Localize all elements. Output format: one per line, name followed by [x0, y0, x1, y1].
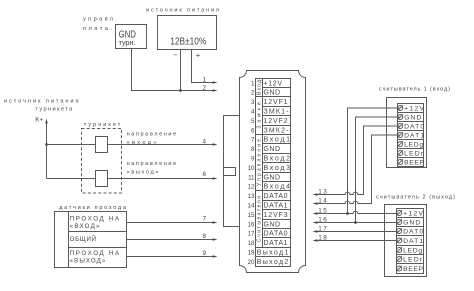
- wire 16: pin 16 GND to readers GND: [317, 222, 398, 224]
- svg-text:18: 18: [248, 240, 255, 247]
- svg-text:13: 13: [248, 193, 255, 200]
- svg-text:BEEP: BEEP: [403, 266, 423, 273]
- pin 11 cell (GND): [263, 173, 291, 182]
- svg-text:DAT1: DAT1: [403, 238, 423, 245]
- svg-text:12: 12: [248, 183, 255, 190]
- turnstile dashed outline: [82, 129, 122, 194]
- connector group cell: Управление (pins 7-12): [256, 135, 263, 191]
- svg-text:12VF3: 12VF3: [264, 212, 288, 219]
- svg-text:Считыватели: Считыватели: [257, 196, 263, 242]
- svg-text:ЗМК2-: ЗМК2-: [264, 128, 290, 135]
- svg-text:ПРОХОД НА: ПРОХОД НА: [70, 215, 120, 222]
- svg-text:14: 14: [248, 202, 255, 209]
- contact S1 direction entry: [96, 137, 108, 153]
- reader 1 terminal GND: [398, 113, 424, 122]
- connector group cell: Считыватели (pins 13-18): [256, 191, 263, 248]
- svg-text:7: 7: [251, 136, 255, 143]
- wire 17: pin 17 to reader2 DAT0: [317, 231, 398, 233]
- connector plug shroud: [224, 116, 240, 227]
- control board GND box: [116, 25, 147, 49]
- reader 2 box: [385, 205, 427, 277]
- pin 7 cell (Вход1): [263, 135, 291, 144]
- junction dot minus/GND: [179, 89, 182, 92]
- svg-text:18: 18: [318, 234, 328, 241]
- svg-text:LEDg: LEDg: [404, 142, 423, 149]
- svg-text:15: 15: [248, 212, 255, 219]
- reader 2 terminal LEDg: [397, 246, 424, 255]
- svg-text:турникет: турникет: [84, 122, 121, 128]
- svg-text:DAT1: DAT1: [404, 133, 424, 140]
- svg-text:GND: GND: [403, 220, 420, 227]
- svg-text:LEDg: LEDg: [403, 248, 422, 255]
- connector group cell: Вход (pins 1-2): [256, 79, 263, 97]
- svg-text:17: 17: [318, 225, 328, 232]
- pin 20 cell (Выход2): [256, 257, 291, 267]
- svg-text:турникета: турникета: [35, 106, 73, 112]
- svg-text:8: 8: [251, 146, 255, 153]
- svg-text:Вход4: Вход4: [264, 184, 291, 191]
- reader 1 terminal +12V: [398, 104, 424, 113]
- reader 2 terminal LEDr: [397, 255, 424, 264]
- svg-text:DATA0: DATA0: [264, 231, 288, 238]
- pin 14 cell (DATA1): [263, 201, 291, 210]
- svg-text:Вход2: Вход2: [264, 156, 291, 163]
- svg-text:BEEP: BEEP: [404, 160, 424, 167]
- pin 5 cell (12VF2): [263, 116, 291, 126]
- svg-text:LEDr: LEDr: [403, 257, 423, 264]
- svg-text:6: 6: [203, 171, 208, 178]
- svg-text:ОБЩИЙ: ОБЩИЙ: [70, 235, 97, 243]
- svg-text:10: 10: [248, 165, 255, 172]
- connector key: [224, 168, 236, 176]
- svg-text:11: 11: [248, 174, 255, 181]
- svg-text:19: 19: [248, 249, 255, 256]
- svg-text:16: 16: [248, 221, 255, 228]
- svg-text:3: 3: [251, 99, 255, 106]
- wire 8: common to pin 8: [127, 239, 214, 241]
- svg-text:GND: GND: [264, 175, 281, 182]
- pin 3 cell (12VF1): [263, 97, 291, 107]
- pin 6 cell (ЗМК2-): [263, 126, 291, 135]
- svg-text:GND: GND: [264, 146, 281, 153]
- wire 18: pin 18 to reader2 DAT1: [317, 240, 398, 242]
- svg-text:DATA1: DATA1: [264, 240, 288, 247]
- svg-text:GND: GND: [404, 115, 421, 122]
- svg-text:DAT0: DAT0: [404, 124, 424, 131]
- svg-text:9: 9: [203, 250, 208, 257]
- svg-text:DAT0: DAT0: [403, 229, 423, 236]
- wire 14: pin 14 to reader1 DAT1: [317, 135, 399, 204]
- pin 2 cell (GND): [263, 88, 291, 97]
- svg-text:турн.: турн.: [119, 38, 136, 47]
- svg-text:2: 2: [251, 89, 255, 96]
- pin 8 cell (GND): [263, 144, 291, 154]
- svg-text:−: −: [173, 51, 178, 60]
- svg-text:считыватель 2 (выход): считыватель 2 (выход): [376, 194, 455, 200]
- svg-text:Вход3: Вход3: [264, 165, 291, 172]
- svg-text:+12V: +12V: [404, 106, 424, 113]
- svg-text:считыватель 1 (вход): считыватель 1 (вход): [379, 87, 450, 93]
- svg-text:12VF1: 12VF1: [264, 99, 288, 106]
- reader 1 box: [387, 98, 427, 168]
- wire 4: entry direction to pin 4: [47, 144, 214, 146]
- reader 1 terminal BEEP: [398, 158, 424, 167]
- pin 15 cell (12VF3): [263, 210, 291, 220]
- svg-text:DATA1: DATA1: [264, 203, 288, 210]
- svg-text:12VF2: 12VF2: [264, 118, 288, 125]
- svg-text:«ВХОД»: «ВХОД»: [70, 223, 100, 230]
- svg-text:17: 17: [248, 230, 255, 237]
- pin 4 cell (ЗМК1-): [263, 107, 291, 116]
- svg-text:Вход1: Вход1: [264, 137, 291, 144]
- svg-text:4: 4: [203, 138, 208, 145]
- svg-text:Управление: Управление: [257, 139, 263, 186]
- pin 9 cell (Вход2): [263, 154, 291, 163]
- pin 13 cell (DATA0): [263, 191, 291, 201]
- svg-text:+12V: +12V: [264, 81, 283, 88]
- svg-text:«выход»: «выход»: [127, 169, 159, 175]
- pin 12 cell (Вход4): [263, 182, 291, 191]
- reader 1 terminal DAT1: [398, 131, 424, 140]
- svg-text:1: 1: [251, 80, 255, 87]
- svg-text:8: 8: [203, 233, 208, 240]
- reader 2 terminal DAT0: [397, 227, 424, 236]
- svg-text:6: 6: [251, 127, 255, 134]
- passage sensors box: [55, 212, 127, 268]
- power supply box 12В: [158, 16, 217, 50]
- branch to reader1 GND: [356, 117, 400, 223]
- svg-text:ПРОХОД НА: ПРОХОД НА: [70, 250, 120, 257]
- svg-text:20: 20: [248, 259, 255, 266]
- svg-text:Вход: Вход: [257, 80, 263, 95]
- svg-text:5: 5: [251, 118, 255, 125]
- wire 13: pin 13 to reader1 DAT0: [317, 126, 399, 195]
- reader 1 terminal LEDr: [398, 149, 424, 158]
- wire: minus terminal down to GND bus: [180, 50, 182, 91]
- reader 2 terminal BEEP: [397, 264, 424, 274]
- wire 9: exit sensor to pin 9: [127, 256, 214, 258]
- svg-text:LEDr: LEDr: [404, 151, 424, 158]
- svg-text:управл.: управл.: [83, 17, 117, 23]
- svg-text:направление: направление: [127, 131, 177, 137]
- wire 7: entry sensor to pin 7: [127, 222, 214, 224]
- pin 18 cell (DATA1): [263, 238, 291, 248]
- svg-text:4: 4: [251, 108, 255, 115]
- connector X1 outline: [240, 71, 306, 273]
- wire 6: exit direction to pin 6: [47, 178, 214, 180]
- wire 15: pin 15 12VF3 to readers +12V: [317, 211, 398, 213]
- svg-text:9: 9: [251, 155, 255, 162]
- svg-text:GND: GND: [264, 222, 281, 229]
- wire 2: GND bus to connector pin 2: [132, 49, 214, 91]
- svg-text:+12V: +12V: [403, 211, 423, 218]
- svg-text:+: +: [196, 51, 201, 60]
- contact S2 direction exit: [96, 171, 108, 187]
- reader 2 terminal +12V: [397, 209, 424, 218]
- svg-text:DATA0: DATA0: [264, 193, 288, 200]
- pin 10 cell (Вход3): [263, 163, 291, 173]
- pin 19 cell (Выход1): [256, 248, 291, 257]
- svg-text:ЗМК1-: ЗМК1-: [264, 109, 290, 116]
- reader 2 terminal DAT1: [397, 236, 424, 246]
- svg-text:14: 14: [318, 197, 328, 204]
- pin 16 cell (GND): [263, 220, 291, 229]
- svg-text:K+: K+: [35, 117, 43, 124]
- svg-text:GND: GND: [264, 90, 281, 97]
- svg-text:12В±10%: 12В±10%: [170, 34, 207, 46]
- svg-text:«ВЫХОД»: «ВЫХОД»: [70, 258, 106, 265]
- connector group cell: Замки (pins 3-6): [256, 97, 263, 135]
- reader 1 terminal LEDg: [398, 140, 424, 149]
- reader 1 terminal DAT0: [398, 122, 424, 131]
- svg-text:15: 15: [318, 207, 328, 214]
- svg-text:2: 2: [203, 84, 208, 91]
- svg-text:7: 7: [203, 216, 208, 223]
- svg-text:1: 1: [203, 76, 208, 83]
- svg-text:16: 16: [318, 216, 328, 223]
- wire 1: plus terminal to connector pin 1: [192, 50, 214, 83]
- wire: K+ feed vertical: [46, 124, 48, 179]
- svg-text:13: 13: [318, 188, 328, 195]
- pin 17 cell (DATA0): [263, 229, 291, 238]
- branch to reader1 +12V: [348, 108, 400, 214]
- junction dot K+/entry wire: [45, 143, 48, 146]
- svg-text:направление: направление: [127, 161, 177, 167]
- reader 2 terminal GND: [397, 218, 424, 227]
- pin 1 cell (+12V): [263, 79, 291, 88]
